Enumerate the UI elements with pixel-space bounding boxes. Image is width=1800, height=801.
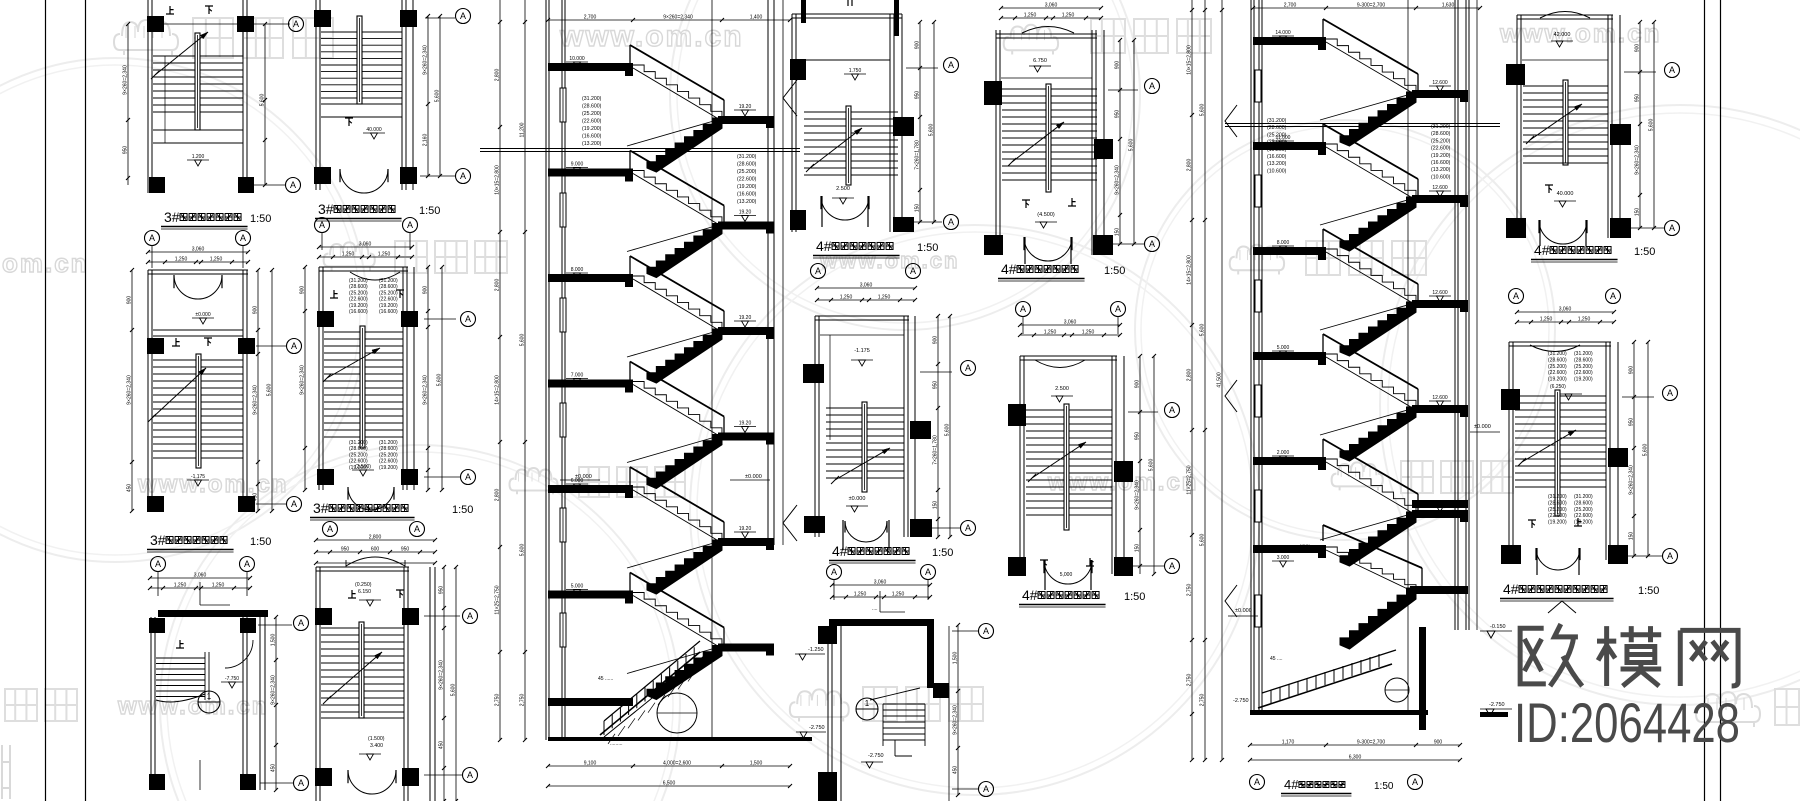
svg-text:12.600: 12.600	[1432, 290, 1448, 296]
P1 columns	[147, 16, 164, 32]
svg-text:(19.200): (19.200)	[737, 184, 757, 190]
svg-text:±0.000: ±0.000	[1235, 608, 1252, 614]
svg-text:900: 900	[423, 286, 429, 295]
S2 horizontal grid line	[1225, 123, 1500, 125]
svg-text:900: 900	[253, 306, 259, 315]
svg-text:2.000: 2.000	[1277, 450, 1290, 456]
P7 walls	[791, 14, 793, 232]
svg-text:9-300=2,700: 9-300=2,700	[1357, 3, 1385, 9]
P9 walls	[995, 30, 997, 255]
svg-text:10×15=2,800: 10×15=2,800	[1187, 45, 1193, 75]
P5 handrail	[360, 326, 365, 448]
P2 A circles top	[145, 231, 160, 246]
svg-text:A: A	[831, 567, 837, 577]
P1 landing lines	[153, 129, 243, 131]
P8b columns	[818, 626, 837, 644]
P12 break line	[1522, 430, 1576, 462]
svg-text:3,060: 3,060	[1559, 307, 1572, 313]
svg-text:-7.750: -7.750	[225, 676, 239, 682]
P2 right dimension	[257, 270, 259, 511]
S1 wall window marks	[560, 88, 566, 122]
svg-text:9×260=2,340: 9×260=2,340	[271, 675, 277, 705]
S2 right landing low	[1412, 500, 1468, 508]
P8 treads	[826, 407, 904, 409]
svg-text:(16.600): (16.600)	[1267, 154, 1287, 160]
svg-text:5,600: 5,600	[260, 94, 266, 107]
svg-text:(1.500): (1.500)	[368, 736, 385, 742]
P12 A circles	[1663, 386, 1678, 401]
svg-text:A: A	[290, 180, 296, 190]
svg-text:(31.200): (31.200)	[1548, 494, 1567, 500]
P4 columns	[314, 10, 331, 27]
P5 door top	[350, 272, 400, 280]
watermark ring middle-bottom	[690, 225, 1260, 795]
P3 top slab black bar	[158, 610, 268, 617]
svg-text:A: A	[1254, 777, 1260, 787]
P6 treads	[321, 627, 404, 629]
P8 break line	[835, 448, 890, 480]
P5 bottom A circles	[323, 522, 338, 537]
P9 columns	[984, 81, 1002, 105]
svg-text:A: A	[465, 314, 471, 324]
svg-text:9-300=2,700: 9-300=2,700	[1357, 740, 1385, 746]
svg-text:5,600: 5,600	[1129, 139, 1135, 152]
P9 door arc top	[1022, 27, 1074, 34]
svg-text:(16.600): (16.600)	[582, 134, 602, 140]
svg-text:4#: 4#	[1534, 242, 1550, 258]
svg-text:-2.750: -2.750	[1489, 702, 1505, 708]
svg-text:(22.600): (22.600)	[1574, 370, 1593, 376]
svg-text:A: A	[319, 220, 325, 230]
svg-text:A: A	[298, 618, 304, 628]
P2 columns	[147, 338, 164, 354]
svg-text:450: 450	[953, 766, 959, 775]
P12 axis mid	[1622, 396, 1654, 398]
svg-text:450: 450	[127, 484, 133, 493]
svg-text:9×260=2,340: 9×260=2,340	[663, 15, 693, 21]
S2 wall marks	[1255, 70, 1261, 102]
svg-text:9×260=2,340: 9×260=2,340	[439, 660, 445, 690]
watermark ring top-middle	[670, 0, 1140, 330]
P12 handrail	[1555, 390, 1560, 516]
svg-text:900: 900	[1135, 380, 1141, 389]
P9 door bottom	[1024, 237, 1048, 261]
svg-text:1,170: 1,170	[1282, 740, 1295, 746]
watermark ring bottom-left	[160, 445, 680, 801]
svg-text:(0.250): (0.250)	[355, 582, 372, 588]
P9 handrail	[1046, 84, 1051, 192]
P12 up down	[1528, 520, 1536, 528]
P7 inner wall upper	[797, 59, 890, 61]
svg-text:-1.175: -1.175	[191, 474, 205, 480]
svg-text:(19.200): (19.200)	[379, 465, 398, 471]
svg-text:A: A	[1169, 561, 1175, 571]
svg-text:900: 900	[1434, 740, 1443, 746]
svg-text:10×15=2,800: 10×15=2,800	[495, 165, 501, 195]
S2 bottom A circles	[1250, 775, 1265, 790]
S2 right wall	[1454, 0, 1456, 630]
svg-text:5,600: 5,600	[435, 90, 441, 103]
svg-text:900: 900	[1635, 44, 1641, 53]
svg-text:1:50: 1:50	[1104, 265, 1125, 277]
svg-text:A: A	[948, 60, 954, 70]
P6 up down	[348, 590, 356, 598]
P2 inner wall	[153, 329, 243, 331]
watermark logo bottom-right corner	[1696, 692, 1760, 727]
svg-text:(31.200): (31.200)	[582, 96, 602, 102]
P6 break line	[327, 652, 382, 700]
svg-text:3.000: 3.000	[1277, 555, 1290, 561]
P10 A circles top	[1016, 302, 1031, 317]
svg-text:(31.200): (31.200)	[1548, 351, 1567, 357]
P10 top dims	[1020, 324, 1120, 326]
P9 top dims	[1001, 7, 1101, 9]
P2 entry door top	[174, 275, 198, 299]
S2 left dim line B	[1204, 0, 1206, 760]
svg-text:3,060: 3,060	[359, 242, 372, 248]
svg-text:www.om.cn: www.om.cn	[137, 471, 288, 498]
svg-text:A: A	[1412, 777, 1418, 787]
svg-text:1:50: 1:50	[1634, 246, 1655, 258]
P9 right dims	[1119, 40, 1121, 244]
watermark ring left	[0, 58, 367, 562]
P8 handrail	[862, 402, 867, 492]
P1 treads	[153, 55, 243, 57]
S2 right lower wall black	[1419, 627, 1426, 730]
svg-text:1,250: 1,250	[1540, 317, 1553, 323]
S2 ground entry stair balusters	[1258, 664, 1392, 708]
svg-text:-2.750: -2.750	[809, 725, 825, 731]
svg-text:(25.200): (25.200)	[349, 290, 368, 296]
P2 up down	[172, 338, 180, 346]
P7 bottom A circles	[811, 264, 826, 279]
P10 up down	[1040, 560, 1048, 568]
svg-text:(31.200): (31.200)	[1574, 351, 1593, 357]
P4 entry door bottom	[340, 169, 364, 193]
svg-text:11×25=2,750: 11×25=2,750	[495, 585, 501, 614]
svg-text:19.20: 19.20	[739, 421, 752, 427]
svg-text:-0.150: -0.150	[1490, 624, 1506, 630]
svg-text:(31.200): (31.200)	[349, 440, 368, 446]
S2 flights and slabs	[1253, 37, 1326, 45]
svg-text:9×260=2,340: 9×260=2,340	[1135, 480, 1141, 510]
watermark logo+text top-left	[114, 20, 178, 55]
svg-text:A: A	[965, 523, 971, 533]
P3 bottom leader	[199, 760, 201, 790]
P1 handrail	[195, 33, 200, 130]
svg-text:A: A	[149, 233, 155, 243]
P11 walls	[1516, 15, 1518, 238]
svg-text:....: ....	[872, 606, 878, 612]
svg-text:5,600: 5,600	[267, 384, 273, 397]
svg-text:2,800: 2,800	[1187, 159, 1193, 172]
svg-text:1,250: 1,250	[854, 592, 867, 598]
P2 left dimension	[131, 270, 133, 511]
svg-text:7.000: 7.000	[571, 373, 584, 379]
svg-text:9×260=2,340: 9×260=2,340	[300, 365, 306, 395]
P10 walls	[1019, 356, 1021, 574]
S2 extra low flight	[1253, 545, 1326, 553]
P8b top slab black	[829, 619, 933, 626]
svg-text:5,600: 5,600	[929, 124, 935, 137]
svg-text:1,500: 1,500	[271, 634, 277, 647]
svg-text:40.000: 40.000	[1557, 191, 1574, 197]
P2 A circle mid	[287, 339, 302, 354]
svg-text:(31.200): (31.200)	[379, 278, 398, 284]
svg-text:6.150: 6.150	[358, 589, 371, 595]
border line far-right B	[1720, 0, 1722, 801]
S1 inner vertical	[711, 0, 713, 740]
P11 landing lines	[1523, 162, 1608, 164]
svg-text:±0.000: ±0.000	[195, 312, 210, 318]
svg-text:19.20: 19.20	[739, 315, 752, 321]
P6 axis mid	[424, 615, 460, 617]
S1 left dim line B	[524, 0, 526, 740]
S1 entry detail circle	[657, 693, 697, 733]
svg-text:3,060: 3,060	[1064, 320, 1077, 326]
svg-text:9×260=2,340: 9×260=2,340	[1629, 465, 1635, 495]
svg-text:2,700: 2,700	[584, 15, 597, 21]
svg-text:1,250: 1,250	[212, 583, 225, 589]
svg-text:1,250: 1,250	[878, 295, 891, 301]
P10 columns	[1008, 404, 1026, 426]
svg-text:1,250: 1,250	[378, 252, 391, 258]
svg-text:A: A	[1020, 304, 1026, 314]
svg-text:A: A	[407, 220, 413, 230]
svg-text:(19.200): (19.200)	[1574, 377, 1593, 383]
P8b A circles top	[827, 565, 842, 580]
svg-text:150: 150	[1629, 532, 1635, 541]
watermark logo+text col7 mid	[1332, 462, 1383, 490]
svg-text:(28.600): (28.600)	[1431, 131, 1451, 137]
svg-text:5,600: 5,600	[451, 684, 457, 697]
svg-text:5.000: 5.000	[1277, 345, 1290, 351]
S2 below dims	[1250, 744, 1460, 746]
P7 right dims	[919, 22, 921, 222]
P8 columns	[803, 364, 824, 383]
S2 ground line	[1250, 710, 1428, 715]
svg-text:1,500: 1,500	[953, 652, 959, 665]
P6 handrail	[359, 622, 364, 718]
svg-text:150: 150	[915, 204, 921, 213]
svg-text:40.000: 40.000	[366, 127, 382, 133]
P6 A circle mid	[463, 609, 478, 624]
P6 walls	[315, 567, 317, 801]
P5 left dimension	[304, 267, 306, 490]
P4 A circle bottom	[456, 169, 471, 184]
svg-text:3#: 3#	[164, 209, 180, 225]
svg-text:5,600: 5,600	[1649, 119, 1655, 132]
svg-text:3#: 3#	[318, 201, 334, 217]
P2 axis line mid	[256, 345, 286, 347]
P7 A circles	[944, 58, 959, 73]
P12 door arc top	[1530, 345, 1580, 352]
P8 walls	[814, 316, 816, 537]
svg-text:www.om.cn: www.om.cn	[559, 20, 744, 53]
svg-text:-2.750: -2.750	[1233, 698, 1249, 704]
svg-text:(13.200): (13.200)	[582, 141, 602, 147]
P3 small stair	[156, 657, 205, 659]
svg-text:www.om.cn: www.om.cn	[117, 693, 268, 720]
watermark ring section2	[1135, 120, 1555, 540]
P1 top axis line	[156, 23, 290, 25]
svg-text:9×260=2,340: 9×260=2,340	[123, 65, 129, 95]
svg-text:www.om.cn: www.om.cn	[1499, 18, 1662, 48]
border line far-left B	[85, 0, 87, 801]
P12 door bottom	[1536, 548, 1558, 570]
svg-text:950: 950	[915, 91, 921, 100]
P12 top dims	[1517, 311, 1614, 313]
P5 up down	[330, 290, 338, 298]
svg-text:3,060: 3,060	[1045, 3, 1058, 9]
big site name char 3	[1680, 630, 1738, 686]
P4 top axis line	[425, 17, 455, 19]
svg-text:6,500: 6,500	[663, 781, 676, 787]
svg-text:(16.600): (16.600)	[737, 192, 757, 198]
svg-text:4#: 4#	[1503, 581, 1519, 597]
P3 door arc right	[225, 640, 253, 668]
svg-text:2.500: 2.500	[836, 186, 850, 192]
P10 A circles right	[1165, 403, 1180, 418]
svg-text:ID:2064428: ID:2064428	[1514, 691, 1740, 754]
P3 A circle mid	[294, 616, 309, 631]
svg-text:A: A	[815, 266, 821, 276]
P5 axis mid	[424, 318, 456, 320]
P1 up-down marks	[166, 6, 174, 14]
svg-text:11×25=2,750: 11×25=2,750	[1187, 465, 1193, 494]
svg-text:150: 150	[1115, 228, 1121, 237]
svg-text:2,800: 2,800	[1187, 369, 1193, 382]
svg-text:950: 950	[1635, 94, 1641, 103]
svg-text:-1.175: -1.175	[854, 348, 870, 354]
svg-text:14.000: 14.000	[1275, 30, 1291, 36]
stair plan P1 walls	[147, 0, 149, 193]
svg-text:±0.000: ±0.000	[575, 474, 592, 480]
svg-text:(25.200): (25.200)	[1548, 364, 1567, 370]
svg-text:(31.200): (31.200)	[349, 278, 368, 284]
svg-text:4#: 4#	[832, 543, 848, 559]
P8b walls	[827, 626, 829, 801]
svg-text:(28.600): (28.600)	[1548, 500, 1567, 506]
P5 door bottom	[348, 487, 371, 510]
P8 A circles	[961, 361, 976, 376]
svg-text:A: A	[291, 499, 297, 509]
svg-text:(4.500): (4.500)	[1037, 212, 1055, 218]
svg-text:2,750: 2,750	[1187, 584, 1193, 597]
P3 detail circle 1	[198, 691, 220, 713]
svg-text:(13.200): (13.200)	[1267, 161, 1287, 167]
P1 left dimension	[127, 24, 129, 185]
S1 entry stair balusters	[600, 652, 700, 735]
S2 left dim line C	[1221, 0, 1223, 760]
svg-text:450: 450	[439, 741, 445, 750]
svg-text:1,250: 1,250	[1024, 13, 1037, 19]
S1 dim vertical right	[782, 0, 784, 545]
svg-text:3,060: 3,060	[860, 283, 873, 289]
svg-text:A: A	[1667, 388, 1673, 398]
svg-text:8.000: 8.000	[1277, 240, 1290, 246]
svg-text:(19.200): (19.200)	[379, 303, 398, 309]
svg-text:-1.250: -1.250	[808, 647, 824, 653]
S2 left dim line A	[1191, 0, 1193, 760]
svg-text:5,600: 5,600	[520, 334, 526, 347]
svg-text:3#: 3#	[150, 532, 166, 548]
P8b small stair	[883, 703, 925, 705]
P2 walls	[147, 270, 149, 511]
P9 A circles	[1145, 79, 1160, 94]
svg-text:A: A	[414, 524, 420, 534]
P3 leader line	[199, 582, 201, 605]
svg-text:(25.200): (25.200)	[379, 452, 398, 458]
svg-text:±0.000: ±0.000	[1474, 424, 1491, 430]
P6 columns	[315, 608, 332, 625]
S2 vertical right outer	[1476, 0, 1478, 630]
S1 elevation markers right	[783, 80, 797, 116]
P8 inner box	[820, 334, 904, 336]
svg-text:2,750: 2,750	[1200, 694, 1206, 707]
P2 handrail	[196, 354, 201, 468]
svg-text:5.000: 5.000	[571, 584, 584, 590]
svg-text:(22.600): (22.600)	[1548, 513, 1567, 519]
svg-text:(28.600): (28.600)	[379, 446, 398, 452]
border line far-left A	[45, 0, 47, 801]
svg-text:(22.600): (22.600)	[582, 119, 602, 125]
svg-text:(22.600): (22.600)	[1574, 513, 1593, 519]
svg-text:(25.200): (25.200)	[1431, 138, 1451, 144]
svg-text:(31.200): (31.200)	[379, 440, 398, 446]
P7 break line	[810, 128, 862, 168]
P11 bottom A circles	[1509, 289, 1524, 304]
P3 walls	[150, 617, 152, 790]
svg-text:1,250: 1,250	[174, 583, 187, 589]
svg-text:A: A	[240, 233, 246, 243]
svg-text:1,250: 1,250	[1082, 330, 1095, 336]
svg-text:1: 1	[207, 692, 212, 701]
P8b right dims	[957, 625, 959, 795]
watermark logo+text section2 mid	[1230, 245, 1284, 275]
svg-text:9×260=2,340: 9×260=2,340	[253, 385, 259, 415]
watermark ring right	[1380, 105, 1800, 705]
svg-text:1:50: 1:50	[452, 504, 473, 516]
svg-text:900: 900	[300, 286, 306, 295]
svg-text:1:50: 1:50	[1638, 585, 1659, 597]
P2 top dimensions	[148, 251, 248, 253]
svg-text:2,750: 2,750	[520, 694, 526, 707]
svg-text:A: A	[965, 363, 971, 373]
watermark text bottom-left corner	[5, 689, 77, 721]
watermark logo+text col5 top	[1004, 25, 1058, 55]
P12 small door glyph	[1548, 601, 1576, 613]
svg-text:950: 950	[933, 381, 939, 390]
P6 right dimension	[443, 567, 445, 801]
P7 columns	[790, 59, 806, 80]
svg-text:1:50: 1:50	[1374, 781, 1394, 792]
P4 A circle top	[456, 9, 471, 24]
P8b detail circle	[856, 698, 878, 720]
svg-text:5,600: 5,600	[1200, 534, 1206, 547]
P12 right dims	[1633, 342, 1635, 556]
svg-text:600: 600	[371, 547, 380, 553]
svg-text:±0.000: ±0.000	[745, 474, 762, 480]
svg-text:150: 150	[933, 501, 939, 510]
svg-text:14×15=2,800: 14×15=2,800	[495, 375, 501, 405]
P1 A circle bottom	[286, 178, 301, 193]
svg-text:A: A	[293, 19, 299, 29]
S2 entry detail circle	[1385, 678, 1409, 702]
svg-text:(22.600): (22.600)	[737, 177, 757, 183]
P10 handrail	[1064, 404, 1069, 530]
P4 down mark	[345, 118, 353, 126]
